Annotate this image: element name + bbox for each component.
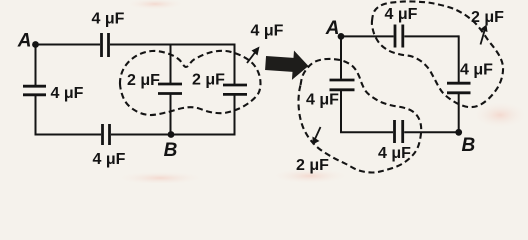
svg-text:4 μF: 4 μF: [251, 23, 284, 40]
svg-text:4 μF: 4 μF: [93, 151, 126, 168]
capacitor C1 4uF (left circuit, top): [102, 33, 109, 57]
node B (right circuit): [455, 129, 462, 136]
capacitor C6 4uF (right circuit, top): [395, 25, 403, 48]
dashed loop around left and bottom 4uF capacitors (right circuit): [298, 59, 421, 173]
svg-text:2 μF: 2 μF: [296, 157, 329, 174]
wire: left circuit bottom, C3 to bottom-right corner: [111, 134, 235, 136]
capacitor C2 4uF (left circuit, left edge): [23, 86, 46, 95]
wire: right circuit right edge, corner down to C7: [458, 35, 460, 82]
wire: left circuit right edge, C5 down to bottom corner: [234, 96, 236, 136]
svg-text:A: A: [325, 18, 340, 39]
capacitor C9 4uF (right circuit, bottom): [395, 120, 403, 143]
svg-text:4 μF: 4 μF: [385, 6, 418, 23]
wire: left circuit left edge, A down to C2: [35, 45, 37, 86]
node B (left circuit): [168, 131, 175, 138]
arrow from dashed loop to 4 uF label (left circuit): [247, 47, 260, 64]
svg-text:4 μF: 4 μF: [92, 11, 125, 28]
svg-text:4 μF: 4 μF: [378, 145, 411, 162]
svg-text:4 μF: 4 μF: [306, 92, 339, 109]
wire: left circuit right edge, top corner down to C5: [234, 44, 236, 85]
wire: right circuit left edge, A down to C8: [340, 36, 342, 78]
wire: left circuit top, A to C1 left plate: [36, 44, 101, 46]
node A (left circuit): [32, 41, 39, 48]
wire: left circuit middle branch, top wire down to C4: [170, 45, 172, 84]
block arrow between circuits: [265, 49, 310, 81]
svg-text:B: B: [462, 135, 476, 156]
wire: right circuit bottom, C9 to node B: [404, 131, 459, 133]
dashed loop around top and right 4uF capacitors (right circuit): [372, 1, 503, 107]
svg-text:B: B: [164, 140, 178, 161]
svg-text:2 μF: 2 μF: [127, 72, 160, 89]
dashed loop around the two 2uF capacitors (left circuit): [120, 51, 261, 115]
svg-text:4 μF: 4 μF: [460, 62, 493, 79]
wire: right circuit bottom, corner to C9: [340, 131, 393, 133]
wire: right circuit top, A to C6: [341, 35, 394, 37]
wire: right circuit left edge, C8 down to bottom-left corner: [340, 91, 342, 132]
wire: left circuit left edge, C2 down to bottom-left corner: [35, 96, 37, 135]
wire: left circuit bottom, left corner to C3: [35, 134, 102, 136]
svg-text:A: A: [17, 31, 32, 52]
wire: right circuit right edge, C7 down to node B: [458, 94, 460, 132]
wire: left circuit top, C1 right plate to top-right corner: [110, 44, 235, 46]
wire: left circuit middle branch, C4 down to node B: [170, 95, 172, 135]
node A (right circuit): [338, 33, 345, 40]
svg-text:4 μF: 4 μF: [51, 85, 84, 102]
capacitor C7 4uF (right circuit, right edge): [447, 83, 471, 93]
arrow from dashed loop to bottom-left 2 uF label (right circuit): [313, 127, 321, 145]
capacitor C5 2uF (left circuit, right edge): [223, 85, 247, 94]
capacitor C4 2uF (left circuit, middle branch): [158, 84, 182, 94]
svg-text:2 μF: 2 μF: [192, 72, 225, 89]
capacitor C8 4uF (right circuit, left edge): [330, 80, 355, 90]
capacitor C3 4uF (left circuit, bottom): [103, 124, 110, 145]
svg-text:2 μF: 2 μF: [471, 9, 504, 26]
arrow from dashed loop to top-right 2 uF label (right circuit): [480, 25, 488, 45]
wire: right circuit top, C6 to top-right corner: [404, 35, 458, 37]
